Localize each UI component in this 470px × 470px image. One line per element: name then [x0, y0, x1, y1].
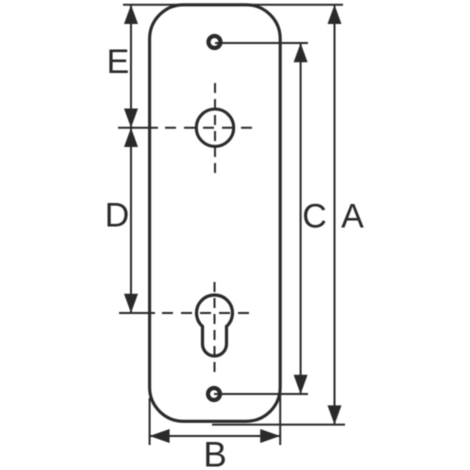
svg-text:C: C: [302, 198, 327, 236]
B right extension line: [279, 394, 281, 445]
bottom fixing hole: [208, 388, 220, 400]
plate outline: [150, 5, 281, 422]
B left extension line: [149, 398, 151, 445]
dimension line A: [334, 5, 336, 425]
arrow C top: [294, 43, 308, 62]
arrow E bottom: [124, 109, 138, 128]
dimension line B: [150, 435, 281, 437]
arrow B right: [260, 429, 280, 443]
extension line from bottom hole to C: [214, 393, 308, 395]
dimension line E: [130, 5, 132, 128]
svg-text:A: A: [341, 198, 364, 236]
svg-text:D: D: [105, 197, 130, 235]
dimension line D: [130, 128, 132, 313]
dimension line C: [300, 43, 302, 394]
keyhole vertical centerline: [214, 282, 216, 373]
svg-text:E: E: [107, 43, 130, 81]
keyhole horizontal centerline: [119, 312, 155, 314]
top extension line: [123, 4, 343, 6]
arrow C bottom: [294, 375, 308, 394]
top fixing hole: [209, 36, 221, 48]
arrow A top: [328, 5, 342, 24]
arrow A bottom: [328, 405, 342, 424]
extension line from top hole to C: [215, 42, 308, 44]
bottom extension line: [212, 424, 345, 426]
handle hole circle: [196, 109, 233, 146]
handle hole horizontal centerline: [118, 127, 158, 129]
arrow B left: [150, 429, 170, 443]
arrow D top: [124, 128, 138, 147]
arrow E top: [124, 5, 138, 24]
euro cylinder keyhole: [196, 295, 232, 356]
arrow D bottom: [124, 294, 138, 313]
handle hole vertical centerline: [214, 83, 216, 176]
svg-text:B: B: [203, 436, 226, 470]
